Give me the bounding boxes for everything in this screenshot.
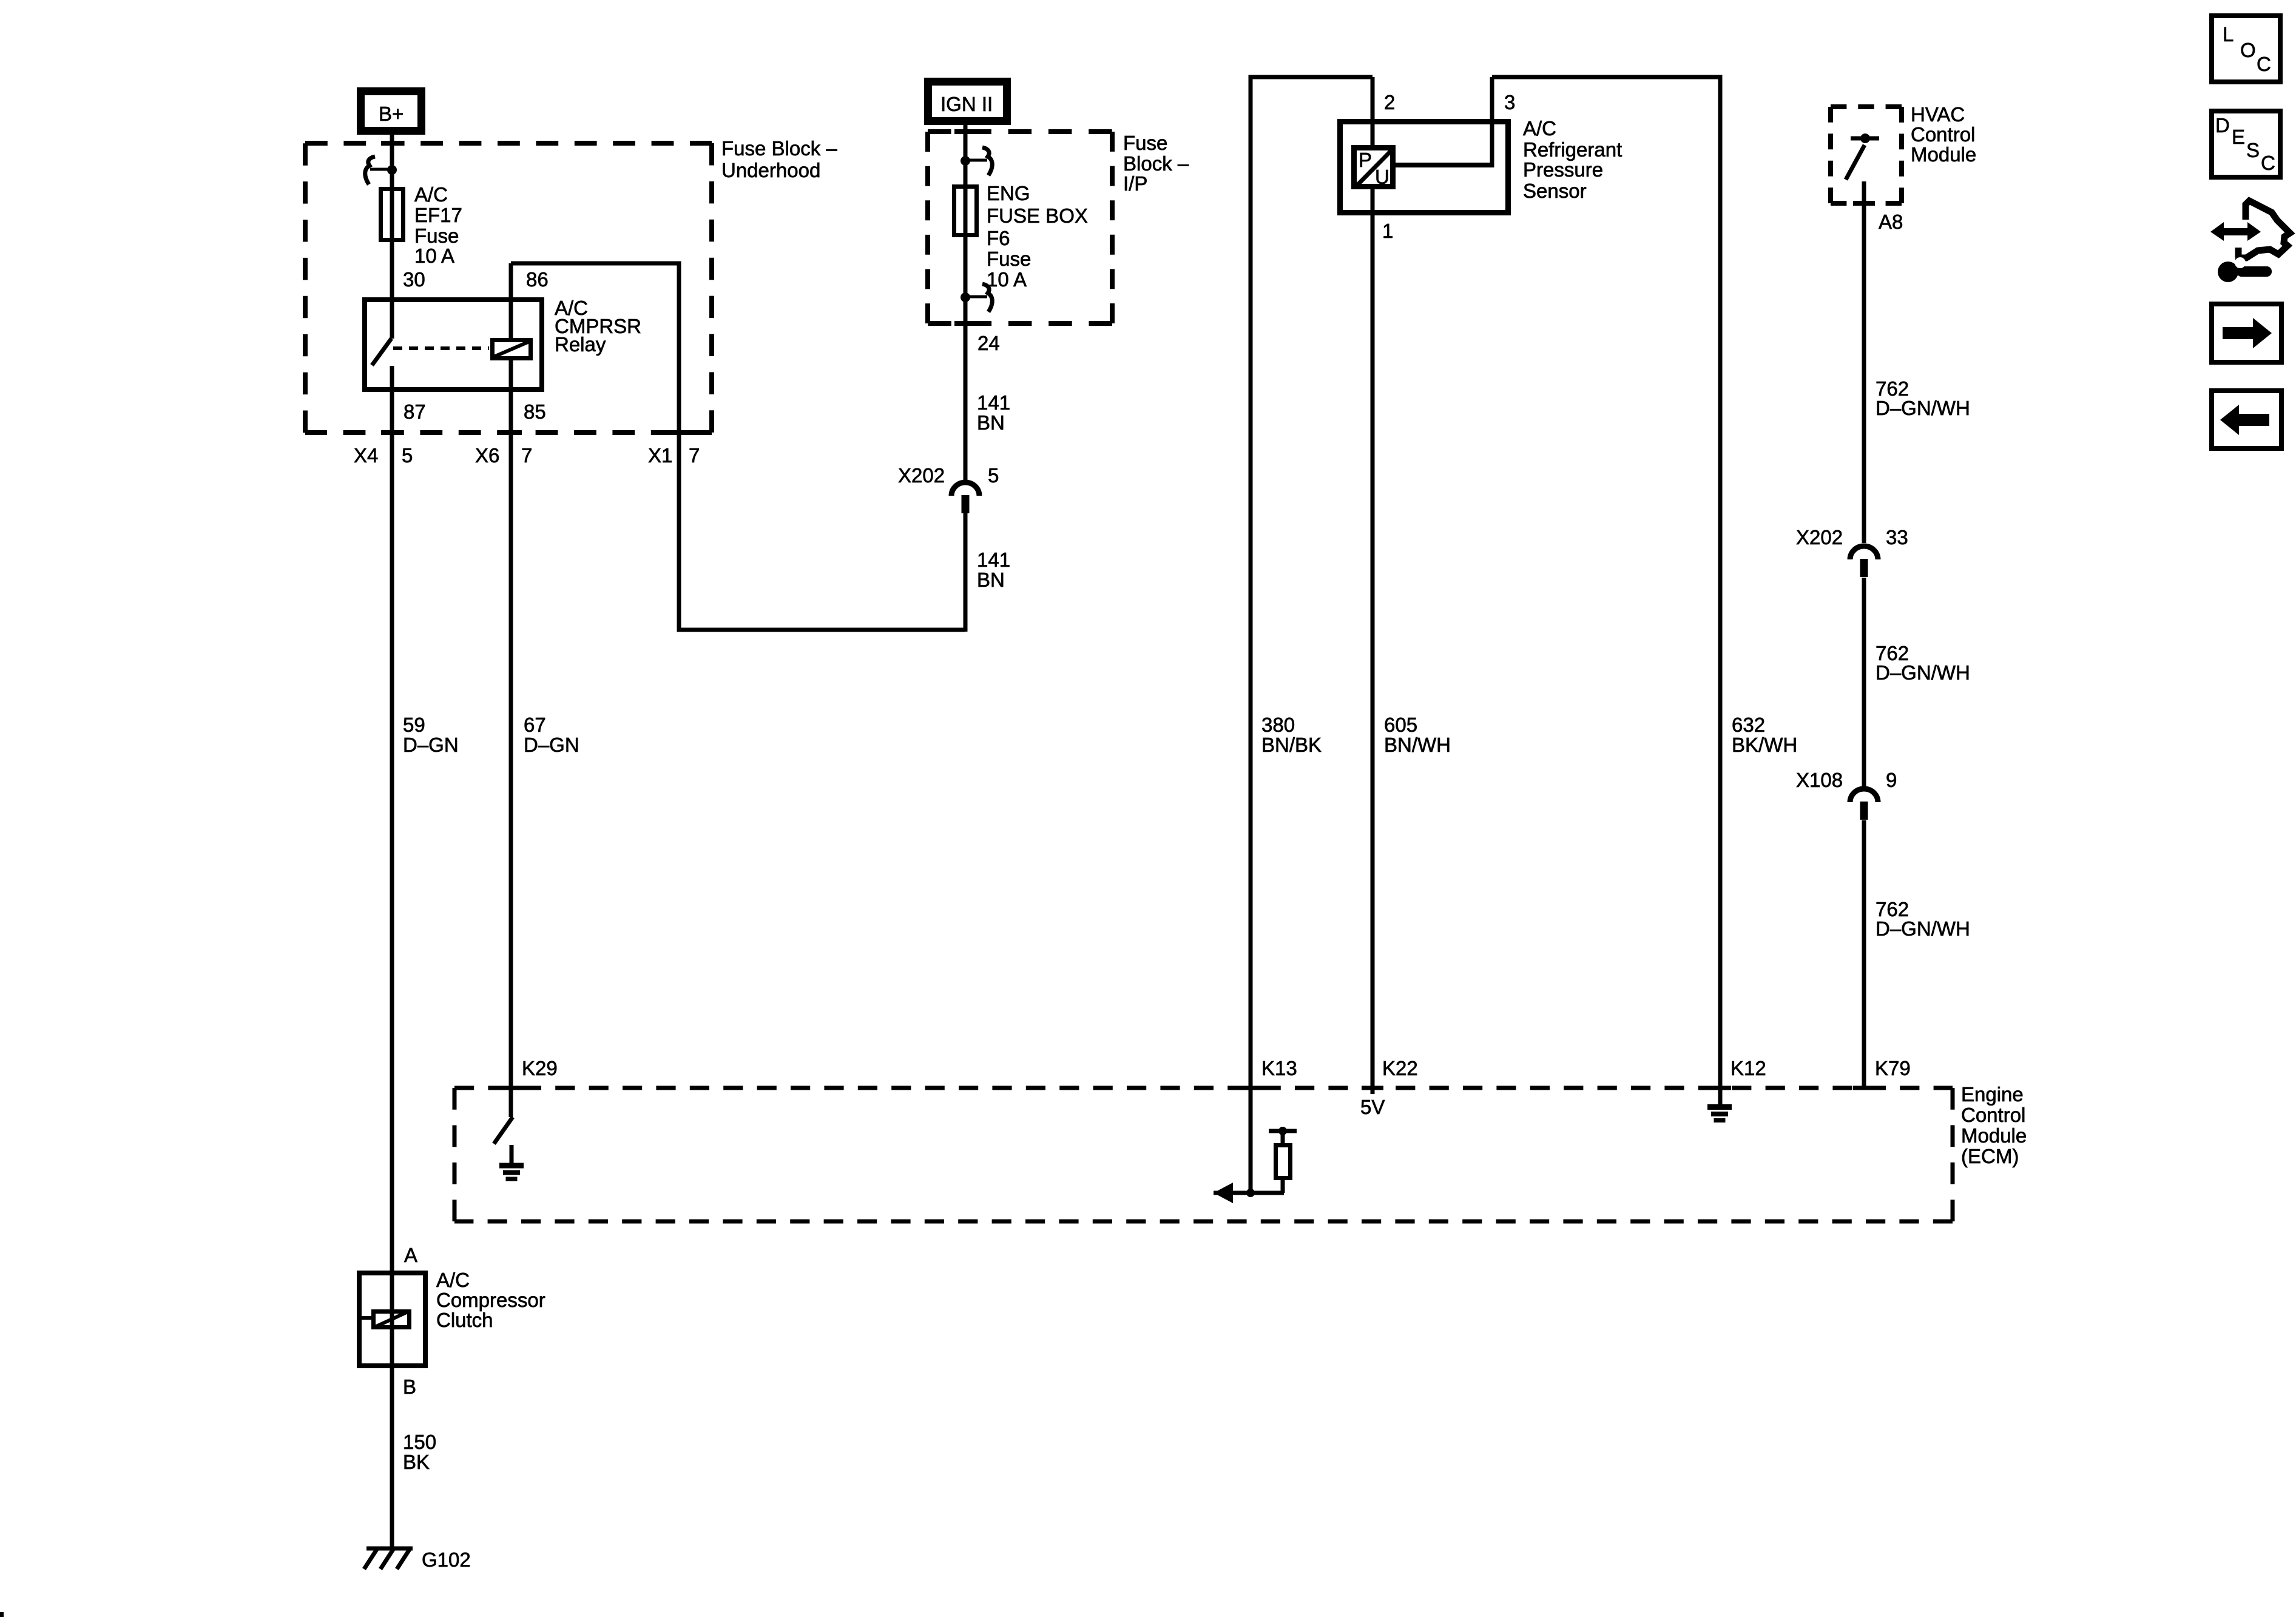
svg-text:B+: B+: [379, 103, 403, 125]
svg-text:87: 87: [403, 400, 426, 423]
svg-text:141: 141: [977, 391, 1010, 414]
svg-text:Pressure: Pressure: [1523, 158, 1603, 181]
wire: relay pin 85 down to ECM K29: [509, 360, 513, 1117]
A/C refrigerant pressure sensor box: [1340, 122, 1508, 213]
svg-text:BN/BK: BN/BK: [1261, 734, 1322, 756]
svg-text:C: C: [2257, 53, 2271, 75]
svg-text:Module: Module: [1961, 1124, 2027, 1147]
svg-text:605: 605: [1384, 714, 1417, 736]
svg-text:A/C: A/C: [414, 183, 448, 206]
svg-text:A8: A8: [1879, 211, 1903, 233]
relay A/C CMPRSR box: [365, 300, 542, 390]
svg-text:K13: K13: [1261, 1057, 1297, 1079]
wire: relay pin 86 to X1-7 and over to I/P fuse branch: [511, 263, 965, 630]
svg-text:5V: 5V: [1360, 1096, 1385, 1118]
svg-text:Compressor: Compressor: [436, 1289, 545, 1311]
ECM K13 pull-up resistor: [1281, 1131, 1285, 1143]
ECM K29 driver switch: [494, 1117, 513, 1144]
ECM border ticks at pin wire crossings: [500, 1086, 522, 1090]
wire: X202-5 down and left to X1 branch: [964, 513, 968, 632]
clutch coil: [374, 1312, 410, 1328]
connector terminal above F6 fuse: [961, 156, 970, 166]
svg-text:1: 1: [1382, 220, 1393, 242]
border ticks at wire crossings: [381, 141, 403, 146]
svg-text:BK: BK: [403, 1451, 430, 1473]
svg-text:632: 632: [1732, 714, 1765, 736]
engine control module (ECM) dashed box: [454, 1086, 1953, 1090]
power node IGN II: [928, 82, 1007, 121]
ECM K12 ground: [1707, 1104, 1732, 1110]
wire 762 D-GN/WH: HVAC A8 down to X202-33: [1862, 181, 1866, 543]
svg-text:I/P: I/P: [1123, 172, 1147, 195]
inline connector X202 pin 5: [951, 482, 979, 496]
svg-text:30: 30: [403, 268, 425, 291]
wire: X202-33 to X108-9: [1862, 578, 1866, 786]
wire 632 BK/WH: pin 3 loop to ECM K12: [1492, 77, 1720, 1105]
ground G102: [366, 1547, 413, 1551]
svg-text:(ECM): (ECM): [1961, 1145, 2019, 1167]
ECM K13 internal node wire and signal arrow: [1214, 1191, 1284, 1195]
svg-text:K12: K12: [1730, 1057, 1766, 1079]
svg-text:K29: K29: [522, 1057, 558, 1079]
relay actuation dashed link: [393, 346, 489, 350]
nav icon box: forward arrow: [2212, 304, 2281, 362]
svg-text:Control: Control: [1961, 1104, 2025, 1126]
sensor internal wire to pin 3: [1393, 163, 1492, 167]
connector terminal above EF17 fuse: [387, 165, 397, 175]
svg-text:Fuse: Fuse: [1123, 132, 1167, 154]
svg-text:24: 24: [977, 332, 1000, 354]
svg-text:85: 85: [524, 400, 546, 423]
svg-text:K22: K22: [1382, 1057, 1418, 1079]
svg-text:FUSE BOX: FUSE BOX: [987, 204, 1088, 227]
svg-text:Sensor: Sensor: [1523, 180, 1587, 202]
wire 380 BN/BK: sensor pin 2 loop to ECM K13: [1251, 77, 1373, 1193]
svg-text:380: 380: [1261, 714, 1295, 736]
page corner mark: [0, 1612, 4, 1617]
svg-text:Control: Control: [1911, 123, 1975, 146]
A/C compressor clutch box: [359, 1273, 425, 1366]
svg-text:X108: X108: [1796, 769, 1843, 791]
svg-text:A/C: A/C: [1523, 117, 1556, 140]
svg-text:10 A: 10 A: [414, 245, 454, 267]
svg-text:L: L: [2223, 23, 2234, 46]
svg-text:B: B: [403, 1376, 416, 1398]
fuse ENG FUSE BOX F6 10A: [954, 187, 977, 235]
svg-text:Engine: Engine: [1961, 1083, 2024, 1106]
svg-text:Underhood: Underhood: [721, 159, 820, 181]
nav icon box DESC: [2212, 111, 2280, 177]
svg-text:Module: Module: [1911, 143, 1976, 166]
svg-text:Fuse: Fuse: [987, 248, 1031, 270]
inline connector X108 pin 9: [1850, 789, 1878, 802]
svg-text:O: O: [2240, 39, 2256, 61]
svg-text:IGN II: IGN II: [940, 93, 993, 115]
svg-text:G102: G102: [422, 1548, 471, 1571]
svg-text:D–GN/WH: D–GN/WH: [1876, 661, 1970, 684]
svg-text:141: 141: [977, 549, 1010, 571]
svg-text:P: P: [1359, 149, 1372, 171]
relay switch arm (pin 30 to 87): [372, 339, 391, 365]
svg-text:BK/WH: BK/WH: [1732, 734, 1797, 756]
wire: B+ down through EF17 fuse to relay pin 30: [390, 135, 394, 339]
svg-text:5: 5: [988, 464, 999, 487]
svg-text:59: 59: [403, 714, 425, 736]
svg-text:D–GN: D–GN: [524, 734, 579, 756]
ECM K29 ground: [499, 1163, 524, 1169]
svg-text:BN: BN: [977, 569, 1005, 591]
svg-text:Block –: Block –: [1123, 152, 1189, 175]
fuse block underhood dashed box: [305, 141, 712, 146]
svg-text:Fuse: Fuse: [414, 224, 459, 247]
relay fixed contact stub to pin 87: [390, 366, 394, 394]
svg-text:2: 2: [1384, 91, 1395, 113]
svg-text:X1: X1: [648, 444, 672, 467]
power node B+: [361, 92, 422, 131]
wire: X108-9 down to ECM K79: [1862, 820, 1866, 1088]
svg-text:S: S: [2246, 139, 2260, 161]
P/U transducer symbol: [1354, 148, 1393, 187]
svg-text:D: D: [2215, 114, 2230, 137]
svg-text:5: 5: [402, 444, 413, 467]
svg-text:U: U: [1375, 166, 1389, 188]
svg-text:C: C: [2261, 152, 2275, 174]
svg-text:86: 86: [526, 268, 549, 291]
wire: sensor pin 3 up: [1490, 77, 1494, 167]
wire: relay pin 86 up: [509, 263, 513, 338]
svg-text:E: E: [2232, 126, 2245, 148]
svg-text:7: 7: [521, 444, 532, 467]
svg-text:D–GN: D–GN: [403, 734, 459, 756]
connector terminal below F6 fuse: [961, 292, 970, 302]
HVAC internal switch: [1851, 137, 1879, 141]
svg-text:BN/WH: BN/WH: [1384, 734, 1451, 756]
svg-text:HVAC: HVAC: [1911, 103, 1965, 126]
svg-text:X6: X6: [475, 444, 499, 467]
svg-text:10 A: 10 A: [987, 268, 1027, 291]
svg-text:D–GN/WH: D–GN/WH: [1876, 397, 1970, 419]
fuse block I/P dashed box: [928, 129, 1112, 134]
svg-text:150: 150: [403, 1431, 436, 1453]
wire: IGN II through F6 fuse: [964, 125, 968, 482]
svg-text:BN: BN: [977, 411, 1005, 434]
fuse A/C EF17 10A: [381, 189, 403, 240]
svg-text:D–GN/WH: D–GN/WH: [1876, 917, 1970, 940]
svg-text:A/C: A/C: [436, 1269, 470, 1291]
svg-text:3: 3: [1504, 91, 1515, 113]
svg-text:A: A: [404, 1244, 417, 1266]
svg-text:7: 7: [689, 444, 700, 467]
svg-text:33: 33: [1886, 526, 1908, 549]
svg-text:X202: X202: [898, 464, 945, 487]
inline connector X202 pin 33: [1850, 546, 1878, 559]
wire 59 D-GN: relay 87 down to A/C compressor clutch and G102: [390, 392, 394, 1548]
nav icon box: back arrow: [2212, 391, 2281, 448]
relay coil: [493, 340, 531, 359]
svg-text:Relay: Relay: [555, 333, 606, 356]
nav icon: part locator with double arrow and wrench: [2210, 222, 2261, 241]
svg-text:K79: K79: [1875, 1057, 1911, 1079]
svg-text:9: 9: [1886, 769, 1897, 791]
svg-text:Fuse Block –: Fuse Block –: [721, 137, 837, 160]
svg-text:F6: F6: [987, 227, 1010, 249]
svg-text:Clutch: Clutch: [436, 1309, 493, 1331]
svg-text:Refrigerant: Refrigerant: [1523, 138, 1622, 161]
svg-text:X4: X4: [354, 444, 378, 467]
svg-text:X202: X202: [1796, 526, 1843, 549]
nav icon box LOC: [2212, 16, 2280, 82]
wire 605 BN/WH: sensor pin 1 to ECM K22: [1371, 189, 1375, 1094]
svg-text:EF17: EF17: [414, 204, 462, 226]
HVAC control module dashed box: [1831, 104, 1902, 109]
svg-text:67: 67: [524, 714, 546, 736]
svg-text:ENG: ENG: [987, 182, 1030, 204]
